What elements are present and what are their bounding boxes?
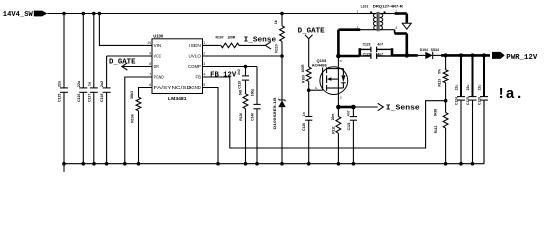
capacitor C118 2u2 VCC [100, 56, 111, 164]
capacitor C119 2n2 comp [237, 67, 249, 89]
svg-text:R110: R110 [275, 44, 279, 52]
capacitor C115 22u input [58, 14, 69, 164]
capacitor C120 1n gate [302, 90, 313, 164]
net tag 14V4_SW [3, 11, 48, 19]
svg-text:2: 2 [203, 52, 205, 56]
net stub D_GATE at DR pin [109, 59, 136, 70]
svg-text:C117: C117 [87, 94, 91, 102]
transistor Q103 AO4468 MOSFET [312, 58, 348, 100]
svg-text:4n7: 4n7 [347, 110, 351, 116]
svg-text:D100S5E5.1B: D100S5E5.1B [273, 97, 277, 130]
wire ground stub below rail left end [63, 164, 65, 172]
svg-text:6k98: 6k98 [434, 109, 438, 117]
capacitor C140 100p comp [250, 67, 260, 164]
svg-text:C125: C125 [466, 97, 470, 105]
svg-text:D_GATE: D_GATE [298, 28, 325, 36]
svg-text:1: 1 [203, 41, 205, 45]
capacitor C123 4n7 snubber [360, 42, 392, 52]
capacitor C117 1u input [87, 14, 98, 164]
svg-text:AGND: AGND [189, 85, 201, 90]
svg-text:R112: R112 [434, 125, 438, 133]
wire snubber feed [338, 55, 359, 58]
svg-text:10: 10 [147, 41, 151, 45]
node source junctions [336, 105, 356, 110]
svg-text:PWR_12V: PWR_12V [506, 54, 538, 62]
node drain junction [336, 54, 341, 59]
svg-text:C121: C121 [347, 122, 351, 130]
wire snubber to output node thick [392, 54, 418, 57]
resistor R111 20m shunt [331, 107, 341, 164]
svg-text:DR: DR [154, 64, 159, 69]
svg-text:4n7: 4n7 [377, 52, 383, 56]
node output rail junctions [444, 53, 486, 57]
svg-text:20m: 20m [331, 114, 335, 121]
svg-text:22u: 22u [454, 85, 458, 91]
svg-text:C115: C115 [58, 94, 62, 102]
wire top 14V4_SW rail [47, 13, 376, 15]
wire gate to Q103 [309, 89, 323, 91]
svg-text:FB: FB [196, 74, 202, 79]
svg-text:22u: 22u [58, 81, 62, 87]
svg-text:R107: R107 [216, 36, 224, 40]
svg-text:14V4_SW: 14V4_SW [3, 11, 34, 19]
svg-text:5: 5 [203, 83, 205, 87]
svg-text:VIN: VIN [154, 43, 162, 48]
svg-text:R120: R120 [239, 113, 243, 121]
wire Q103 drain to transformer thick [338, 30, 360, 67]
resistor R106 38k3 on FA/SYNC/SD [130, 88, 152, 164]
svg-text:LM3481: LM3481 [168, 96, 187, 101]
svg-text:C140: C140 [251, 113, 255, 121]
pin names U100 right [188, 43, 202, 90]
svg-text:FA/SYNC/SD: FA/SYNC/SD [154, 85, 192, 90]
wire ground rail [64, 163, 484, 165]
svg-text:FB_12V: FB_12V [210, 72, 237, 80]
svg-text:R106: R106 [131, 114, 135, 123]
svg-text:100p: 100p [250, 89, 254, 97]
pin numbers U100 left 10 9 8 7 6 [147, 41, 151, 87]
node FB tap junction [444, 99, 448, 103]
svg-text:8: 8 [149, 62, 151, 66]
wire UVLO pin 2 [203, 55, 283, 57]
pin names U100 left [154, 43, 192, 90]
svg-text:3: 3 [357, 26, 359, 30]
diode D100 zener 5V1 [273, 56, 286, 164]
net stub open triangle [402, 23, 411, 29]
svg-text:D_GATE: D_GATE [109, 59, 136, 67]
svg-text:COMP: COMP [188, 64, 201, 69]
capacitor C124 22u output [454, 55, 465, 163]
resistor R110 1k UVLO [274, 14, 284, 57]
svg-text:VCC: VCC [154, 53, 162, 58]
svg-text:C118: C118 [100, 94, 104, 102]
node ground rail junctions [62, 162, 474, 166]
diode D104 SS34 [418, 48, 441, 59]
svg-text:C120: C120 [302, 123, 306, 131]
net stub I_Sense to ISEN [239, 36, 277, 49]
svg-text:1u: 1u [87, 82, 91, 86]
svg-text:R113: R113 [438, 79, 442, 87]
svg-text:!a.: !a. [497, 86, 524, 103]
svg-text:6k8: 6k8 [239, 90, 243, 96]
svg-text:C116: C116 [77, 94, 81, 102]
capacitor C122 4n7 snubber [360, 52, 392, 58]
svg-text:38k3: 38k3 [130, 91, 134, 99]
svg-text:2u2: 2u2 [100, 81, 104, 87]
wire Q103 source to sense node [337, 94, 339, 107]
svg-text:I_Sense: I_Sense [386, 105, 420, 113]
wire L101 pin3 stub [359, 29, 376, 31]
svg-text:R109: R109 [301, 75, 305, 83]
svg-text:C122: C122 [363, 52, 371, 56]
svg-text:I_Sense: I_Sense [244, 36, 277, 44]
svg-text:4: 4 [395, 26, 397, 30]
svg-text:4n7: 4n7 [377, 42, 383, 46]
svg-text:C123: C123 [363, 42, 371, 46]
svg-text:100R: 100R [301, 64, 305, 73]
node UVLO junction [280, 54, 284, 58]
wire COMP pin 3 [203, 66, 258, 68]
svg-text:SS34: SS34 [431, 48, 439, 52]
svg-text:4: 4 [203, 73, 205, 77]
resistor R112 6k98 divider bottom [434, 101, 448, 164]
svg-text:7: 7 [149, 73, 151, 77]
svg-text:D104: D104 [420, 48, 428, 52]
svg-text:22u: 22u [477, 85, 481, 91]
wire FB feedback route [203, 77, 446, 148]
wire DR pin to D_GATE arrow [122, 66, 152, 68]
node gate junction [307, 88, 311, 92]
wire L101 pin2 to open stub [380, 14, 407, 23]
resistor R120 6k8 comp [239, 80, 248, 164]
node output junction thick [405, 53, 410, 58]
svg-text:C119: C119 [237, 81, 241, 89]
wire VCC to C118 [107, 55, 152, 57]
svg-text:2n2: 2n2 [237, 69, 241, 75]
net stub D_GATE gate drive [298, 28, 325, 39]
svg-text:5%: 5% [437, 69, 441, 74]
svg-text:1n: 1n [302, 112, 306, 116]
svg-text:C124: C124 [455, 97, 459, 105]
svg-text:9: 9 [149, 52, 151, 56]
svg-text:DRQ127-4R7-R: DRQ127-4R7-R [373, 5, 404, 9]
wire snubber left bar [358, 48, 361, 56]
svg-text:AO4468: AO4468 [312, 62, 328, 67]
wire C126 drop to rail corner [483, 100, 485, 164]
net stub I_Sense output [353, 103, 419, 112]
svg-text:ISEN: ISEN [189, 43, 201, 48]
resistor R113 5% divider top [437, 55, 448, 100]
capacitor C121 4n7 sense [347, 107, 357, 164]
wire ISEN pin 1 [203, 44, 221, 46]
wire PWR_12V output rail thick [441, 54, 490, 57]
svg-text:UVLO: UVLO [189, 53, 202, 58]
svg-text:1k: 1k [274, 20, 278, 24]
svg-text:U100: U100 [153, 34, 164, 39]
svg-text:1: 1 [357, 10, 359, 14]
wire VIN feed from rail [99, 14, 152, 46]
svg-text:100R: 100R [227, 36, 236, 40]
wire PGND to ground [125, 77, 152, 164]
svg-text:6: 6 [149, 83, 151, 87]
net tag PWR_12V [492, 52, 538, 62]
op-amp U100 LM3481 controller box [152, 34, 203, 102]
svg-text:3: 3 [203, 62, 205, 66]
svg-text:S: S [340, 96, 342, 100]
resistor R109 100R gate [301, 39, 311, 90]
capacitor C126 22u output [477, 55, 488, 163]
node top rail junctions [62, 12, 284, 16]
node COMP junction [244, 65, 248, 69]
wire sense bus thick [338, 106, 353, 109]
wire L101 pin1 stub [361, 13, 376, 15]
capacitor C125 22u output [466, 55, 477, 163]
svg-text:L101: L101 [361, 5, 369, 9]
svg-text:22u: 22u [77, 81, 81, 87]
pin numbers U100 right 1 2 3 4 5 [203, 41, 205, 87]
wire AGND pin 5 [203, 88, 219, 164]
svg-text:R111: R111 [331, 126, 335, 134]
svg-text:22u: 22u [466, 85, 470, 91]
wire L101 pin4 to output node [380, 30, 407, 56]
capacitor C116 22u input [77, 14, 88, 164]
wire snubber right bar [391, 48, 394, 56]
resistor R107 100R [216, 36, 240, 48]
svg-text:C126: C126 [478, 97, 482, 105]
inductor L101 DRQ127-4R7-R coupled [357, 5, 404, 32]
svg-text:PGND: PGND [154, 74, 164, 79]
